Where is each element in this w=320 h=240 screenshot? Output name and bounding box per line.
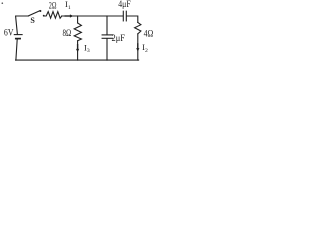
svg-text:2Ω: 2Ω xyxy=(49,1,57,11)
capacitor C1 4μF xyxy=(123,11,126,21)
wire bottom xyxy=(16,59,139,61)
battery 6V xyxy=(14,35,22,39)
wire right rail xyxy=(137,34,139,60)
wire branch 2μF top xyxy=(106,16,108,35)
current arrow I1 xyxy=(65,14,74,17)
switch S xyxy=(29,10,45,17)
current arrow I2 xyxy=(136,43,139,51)
resistor R1 2Ω xyxy=(44,12,62,19)
svg-text:4μF: 4μF xyxy=(118,0,130,9)
wire branch 2μF bottom xyxy=(106,39,108,61)
svg-text:2μF: 2μF xyxy=(112,33,125,43)
svg-text:S: S xyxy=(30,16,35,25)
wire branch 8Ω top xyxy=(77,16,79,23)
resistor R2 8Ω xyxy=(74,23,81,41)
wire left rail top xyxy=(16,16,29,34)
svg-text:8Ω: 8Ω xyxy=(63,28,72,38)
wire left rail bottom xyxy=(16,39,17,60)
wire top right xyxy=(127,16,138,22)
wire branch 8Ω bottom xyxy=(77,41,79,60)
noise dot xyxy=(2,2,4,4)
capacitor C2 2μF xyxy=(102,35,113,38)
svg-text:6V: 6V xyxy=(4,28,14,38)
svg-text:4Ω: 4Ω xyxy=(144,29,154,39)
resistor R3 4Ω xyxy=(135,22,141,34)
current arrow I3 xyxy=(76,44,79,52)
wire top middle xyxy=(62,15,123,17)
